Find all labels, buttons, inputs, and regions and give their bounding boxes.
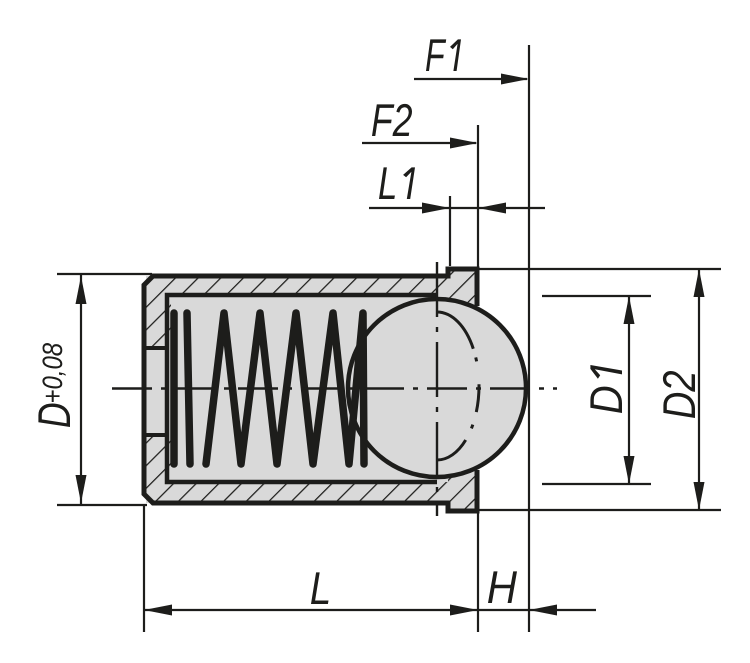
body fill	[144, 269, 477, 511]
hatch lip bottom	[448, 470, 477, 511]
ball fill	[346, 297, 528, 479]
L1 dimension line	[369, 207, 545, 209]
L arrow right	[450, 605, 478, 616]
F1 arrow	[501, 74, 529, 85]
extension line x529	[528, 45, 530, 632]
D1 arrow down	[624, 456, 635, 484]
extension line x144	[143, 505, 145, 632]
label F1	[426, 39, 461, 71]
L H dimension line	[144, 609, 596, 611]
label F2	[372, 104, 412, 136]
label D2	[663, 371, 695, 418]
spring end coil left	[170, 313, 178, 464]
D2 dimension line	[698, 269, 700, 510]
L1 arrow right	[478, 203, 506, 214]
hatch top band	[146, 276, 448, 296]
extension line x478 upper	[477, 125, 479, 268]
ball meridian arc	[437, 312, 479, 460]
D1 dimension line	[628, 296, 630, 484]
extension line x450	[449, 196, 451, 266]
body outline	[144, 269, 477, 511]
L1 arrow left	[422, 203, 450, 214]
hatch wall upper	[146, 276, 171, 348]
F2 dimension line	[362, 142, 476, 144]
spring zigzag	[206, 313, 364, 464]
D2 arrow up	[694, 269, 705, 297]
label L1	[379, 167, 415, 199]
label L	[311, 572, 329, 604]
vertical center line	[436, 262, 438, 516]
L arrow left	[144, 605, 172, 616]
label D tolerance	[42, 343, 65, 402]
spring second coil	[187, 313, 190, 464]
slot line upper	[142, 346, 169, 350]
horizontal center line	[112, 387, 557, 389]
ball outline	[348, 299, 526, 477]
F2 arrow	[450, 138, 478, 149]
D2 extension top	[479, 268, 721, 270]
D arrow up	[76, 276, 87, 304]
extension line x478 lower	[477, 511, 479, 632]
label D	[38, 404, 70, 428]
hatch bottom band	[146, 482, 448, 503]
label D1	[590, 365, 622, 413]
D1 extension bottom	[542, 483, 651, 485]
D1 extension top	[542, 295, 651, 297]
slot line lower	[142, 433, 169, 437]
D dimension line	[80, 274, 82, 505]
hatch lip top	[448, 269, 477, 306]
D extension top	[57, 273, 152, 275]
hatch wall lower	[146, 434, 171, 503]
F1 dimension line	[414, 78, 527, 80]
D2 extension bottom	[479, 509, 721, 511]
bore edges	[167, 295, 437, 482]
D2 arrow down	[694, 482, 705, 510]
label H	[488, 571, 517, 603]
H arrow	[529, 605, 557, 616]
D arrow down	[76, 475, 87, 503]
D1 arrow up	[624, 296, 635, 324]
D extension bottom	[57, 504, 147, 506]
